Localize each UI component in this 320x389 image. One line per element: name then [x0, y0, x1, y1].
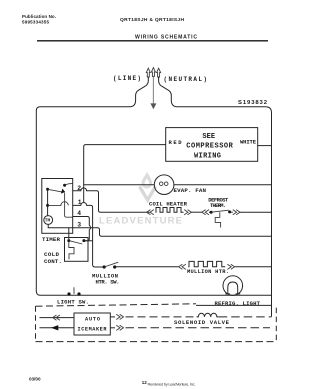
svg-text:AUTO: AUTO [85, 317, 100, 323]
dashed harness box left edge [35, 306, 37, 341]
connector chevrons left of defrost therm [202, 210, 209, 215]
wire neutral-side cord into right bus [159, 77, 272, 317]
wire icemaker lower right [110, 327, 115, 329]
svg-text:THERM.: THERM. [210, 203, 226, 209]
wire red: compressor box to timer bus [84, 145, 166, 203]
wire terminal 4 row to cold control [73, 217, 91, 241]
wire mullion row [115, 266, 179, 268]
svg-text:REFRIG. LIGHT: REFRIG. LIGHT [215, 300, 261, 307]
cold control contacts [67, 239, 70, 242]
border bottom right solid [196, 304, 272, 306]
wire mullion row to right bus [235, 266, 272, 268]
connector chevrons right of defrost therm [233, 210, 240, 215]
node common top [46, 188, 49, 191]
svg-text:3: 3 [77, 221, 81, 228]
wire icemaker upper left [40, 317, 75, 319]
svg-text:Rendered by LeadVenture, Inc.: Rendered by LeadVenture, Inc. [148, 381, 196, 386]
defrost thermostat [209, 211, 211, 213]
wire cold control left lead [68, 228, 70, 239]
dashed harness box bottom [36, 341, 277, 343]
connector chevrons left of coil heater [147, 210, 154, 215]
header rule [37, 40, 268, 42]
svg-text:MULLION HTR.: MULLION HTR. [187, 269, 229, 275]
compressor wiring box [166, 128, 258, 162]
svg-text:WIRING: WIRING [194, 153, 221, 161]
wire terminal 3 / motor row to right bus [48, 224, 271, 236]
svg-text:S193832: S193832 [238, 100, 268, 106]
timer motor TM [44, 216, 53, 225]
svg-text:COIL HEATER: COIL HEATER [149, 201, 188, 208]
plug prong right [157, 68, 161, 77]
cold control element [69, 242, 74, 259]
wire dashed to solenoid [126, 316, 197, 318]
wire light row [36, 291, 271, 295]
svg-text:LIGHT SW.: LIGHT SW. [57, 298, 89, 305]
wire defrost row to right bus [231, 211, 233, 213]
dashed harness box top left [36, 304, 197, 306]
svg-text:5995334355: 5995334355 [22, 19, 49, 24]
ground wire with arrow [152, 77, 154, 104]
dashed harness box right edge [275, 308, 277, 342]
svg-text:RED: RED [169, 139, 183, 146]
svg-text:HTR. SW.: HTR. SW. [96, 279, 120, 286]
wire line-side cord into left bus [36, 77, 148, 291]
plug prong left [146, 68, 150, 77]
watermark logo flame [140, 172, 156, 201]
timer contact dot [63, 184, 66, 187]
wire icemaker lower left with arrow [40, 327, 75, 329]
wire white: compressor box to right bus [258, 145, 272, 147]
timer switch arm lower with hop [48, 202, 69, 206]
svg-text:ICEMAKER: ICEMAKER [78, 327, 108, 333]
svg-text:SEE: SEE [202, 133, 215, 141]
wire dashed icemaker lower right [126, 327, 271, 329]
wire evap fan row [84, 184, 272, 186]
wire contact 2 lead [65, 183, 73, 185]
svg-text:SOLENOID VALVE: SOLENOID VALVE [174, 319, 230, 326]
connector chevrons icemaker lower right [116, 325, 123, 330]
connector chevrons right of coil heater [184, 210, 191, 215]
timer switch arm upper [48, 189, 62, 192]
svg-text:TM: TM [45, 218, 51, 224]
svg-text:WHITE: WHITE [240, 139, 257, 146]
auto icemaker box [74, 313, 110, 335]
cold control box [65, 238, 89, 262]
resistor mullion heater [188, 261, 225, 266]
resistor coil heater [156, 208, 184, 213]
wire dashed solenoid to right bus [219, 316, 272, 318]
svg-text:CONT.: CONT. [44, 258, 62, 265]
connector chevrons icemaker upper left [53, 315, 60, 320]
wire terminal 2 row to coil heater [73, 188, 150, 212]
svg-text:03/00: 03/00 [29, 377, 41, 382]
svg-text:LEADVENTURE: LEADVENTURE [99, 216, 182, 227]
svg-text:TIMER: TIMER [42, 236, 61, 243]
wire contact 4 lead inside [65, 193, 73, 218]
svg-text:12: 12 [142, 380, 148, 385]
connector chevrons icemaker upper right [116, 314, 123, 319]
connector chevrons right of mullion heater [227, 264, 234, 269]
svg-text:(LINE): (LINE) [113, 75, 141, 82]
mullion heater switch [103, 265, 106, 268]
evap fan motor [154, 175, 174, 195]
wire icemaker upper right [110, 316, 115, 318]
svg-text:Publication No.: Publication No. [22, 14, 56, 19]
svg-text:WIRING SCHEMATIC: WIRING SCHEMATIC [135, 34, 197, 40]
wire terminal 1 row to mullion switch [73, 203, 105, 267]
solenoid valve coil [197, 313, 219, 317]
svg-text:COMPRESSOR: COMPRESSOR [186, 143, 233, 151]
svg-text:4: 4 [77, 210, 81, 217]
svg-text:QRT18SJH & QRT18ISJH: QRT18SJH & QRT18ISJH [120, 17, 184, 23]
timer box [42, 179, 73, 234]
svg-text:EVAP. FAN: EVAP. FAN [174, 187, 207, 194]
wire to defrost therm [191, 211, 201, 213]
timer common wire [47, 189, 49, 215]
refrigerator light bulb [223, 276, 243, 296]
svg-text:(NEUTRAL): (NEUTRAL) [164, 76, 208, 83]
connector chevrons left of mullion heater [179, 264, 186, 269]
light switch [67, 292, 70, 295]
node common bottom [46, 204, 49, 207]
plug prong middle [151, 68, 155, 77]
